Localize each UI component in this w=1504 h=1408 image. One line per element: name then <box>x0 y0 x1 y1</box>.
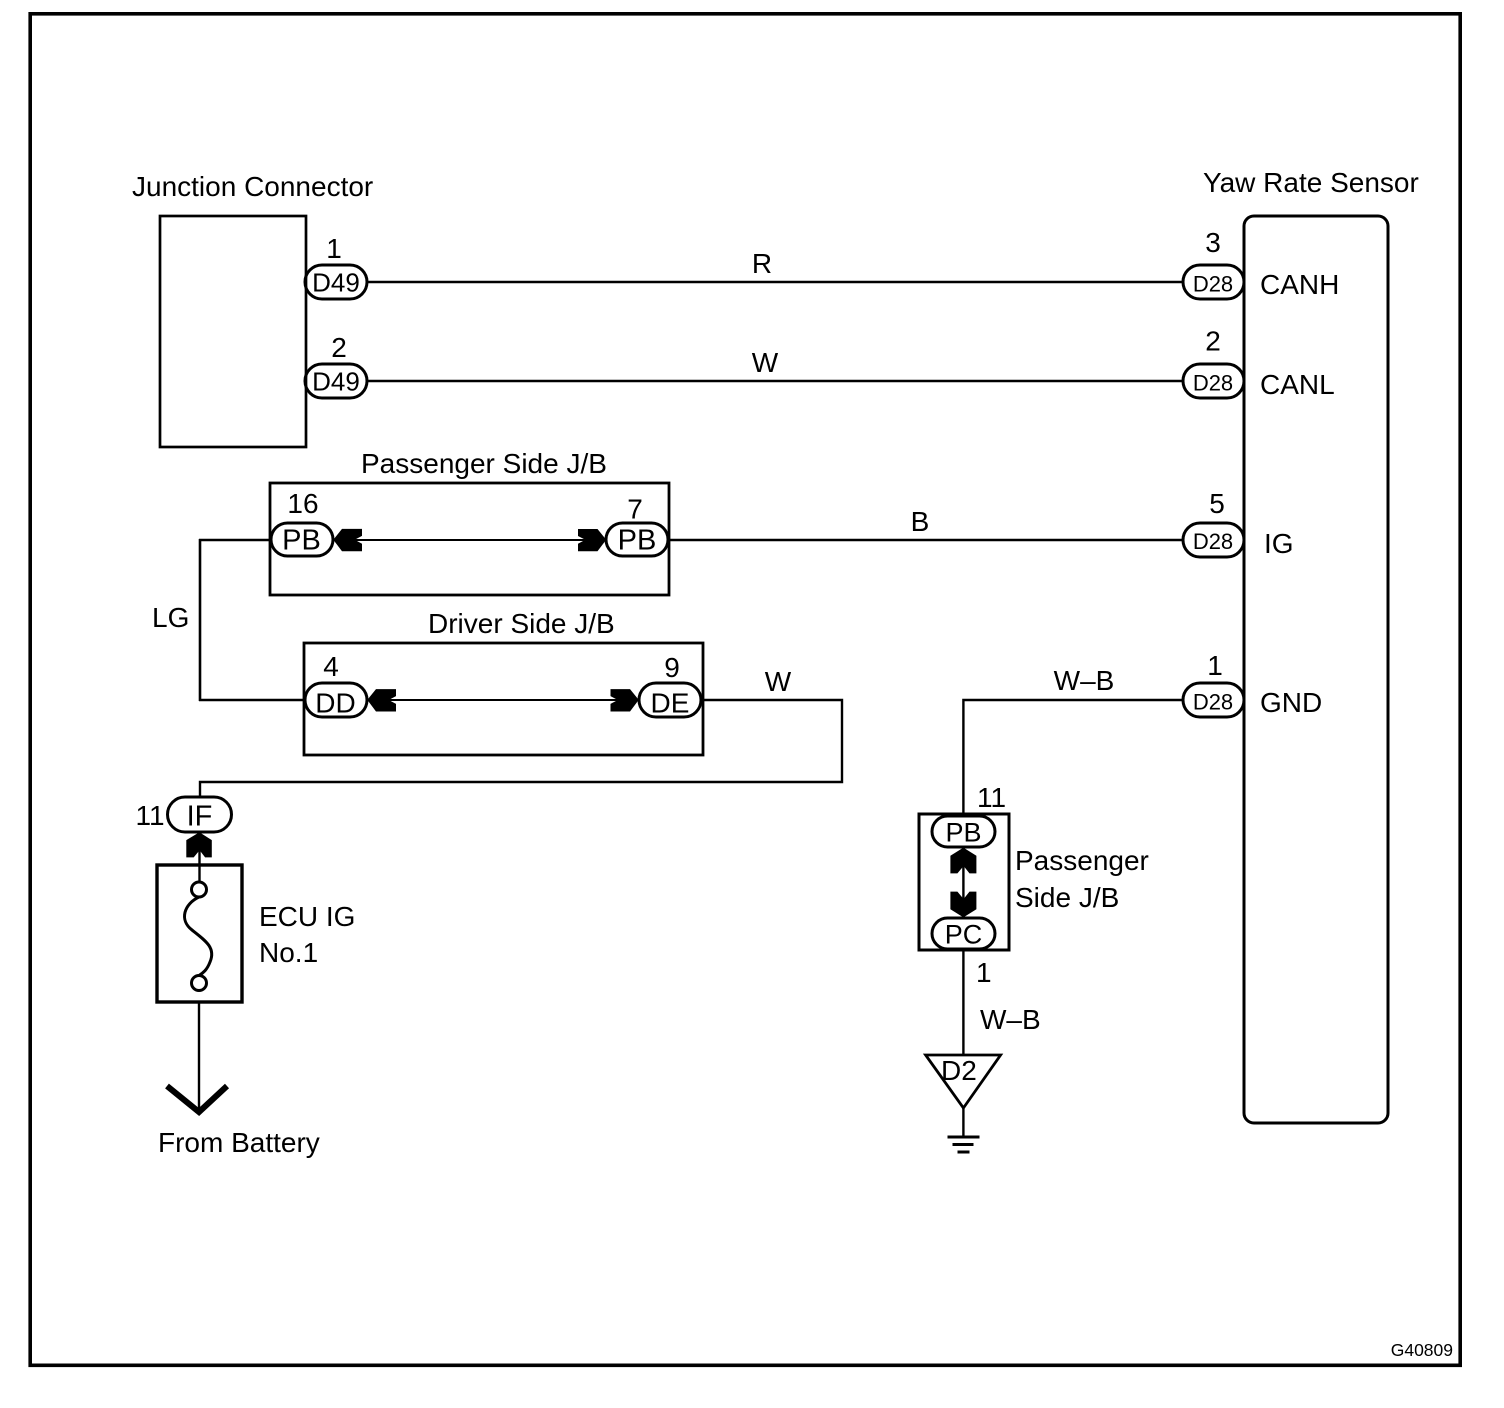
wire IF to fuse <box>198 832 200 882</box>
svg-text:B: B <box>911 506 930 537</box>
svg-text:3: 3 <box>1205 227 1221 258</box>
svg-text:11: 11 <box>135 800 164 831</box>
yaw rate sensor box <box>1244 216 1388 1123</box>
wire stub to PB16 <box>199 539 271 541</box>
fuse top terminal <box>192 882 207 897</box>
svg-text:11: 11 <box>977 782 1006 813</box>
svg-text:CANL: CANL <box>1260 369 1335 400</box>
svg-text:Side J/B: Side J/B <box>1015 882 1119 913</box>
svg-text:From Battery: From Battery <box>158 1127 320 1158</box>
arrow right at PB7 <box>578 529 606 551</box>
ground connector D2 triangle <box>926 1055 1001 1108</box>
svg-text:D49: D49 <box>312 268 360 298</box>
wire between DD and DE <box>368 699 639 701</box>
connector IF pin 11 <box>168 797 232 832</box>
svg-text:DD: DD <box>315 688 355 719</box>
fuse bottom terminal <box>192 976 207 991</box>
svg-text:Passenger Side J/B: Passenger Side J/B <box>361 448 607 479</box>
svg-text:PC: PC <box>945 920 983 950</box>
svg-text:IG: IG <box>1264 528 1294 559</box>
connector PB pin 16 <box>271 523 333 556</box>
svg-text:W–B: W–B <box>980 1004 1041 1035</box>
wire fuse to battery <box>198 1002 200 1112</box>
svg-text:W–B: W–B <box>1054 665 1115 696</box>
svg-text:2: 2 <box>1205 326 1221 357</box>
svg-text:1: 1 <box>326 233 342 264</box>
arrow up at IF <box>186 832 212 857</box>
wire stub to DD <box>199 699 305 701</box>
svg-text:ECU IG: ECU IG <box>259 901 355 932</box>
arrow down in J/B <box>950 892 976 918</box>
connector D49 pin 1 <box>305 265 367 299</box>
wire LG vertical <box>199 539 202 701</box>
svg-text:D2: D2 <box>941 1055 977 1086</box>
svg-text:DE: DE <box>651 688 690 719</box>
connector PB pin 11 <box>932 816 995 847</box>
svg-text:CANH: CANH <box>1260 269 1339 300</box>
driver side J/B box <box>304 643 703 755</box>
arrow right at DE <box>611 689 639 711</box>
connector D49 pin 2 <box>305 364 367 398</box>
wire through J/B <box>962 848 964 917</box>
wire PC to ground <box>962 950 964 1055</box>
arrow left at DD <box>367 689 396 711</box>
svg-text:W: W <box>752 347 779 378</box>
fuse ECU IG No.1 box <box>157 865 242 1002</box>
wire B <box>669 539 1184 542</box>
svg-text:D49: D49 <box>312 367 360 397</box>
svg-text:D28: D28 <box>1193 529 1233 554</box>
ground symbol <box>948 1136 980 1139</box>
svg-text:PB: PB <box>945 818 981 848</box>
svg-text:9: 9 <box>664 652 680 683</box>
connector D28 pin 3 <box>1183 265 1244 299</box>
svg-text:7: 7 <box>627 494 643 525</box>
wire W <box>367 380 1184 383</box>
connector D28 pin 2 <box>1183 364 1244 398</box>
wire triangle to ground <box>962 1108 964 1137</box>
svg-text:16: 16 <box>287 488 318 519</box>
passenger side J/B lower box <box>919 814 1009 950</box>
svg-text:5: 5 <box>1209 488 1225 519</box>
svg-text:Passenger: Passenger <box>1015 845 1149 876</box>
svg-text:Junction Connector: Junction Connector <box>132 171 373 202</box>
passenger side J/B box <box>270 483 669 595</box>
arrow up in J/B <box>950 848 976 874</box>
connector D28 pin 5 <box>1183 523 1244 557</box>
wire W-B to GND <box>963 700 1184 814</box>
wire W from DE <box>200 700 842 798</box>
connector D28 pin 1 <box>1183 683 1244 717</box>
svg-text:GND: GND <box>1260 687 1322 718</box>
svg-text:D28: D28 <box>1193 690 1233 715</box>
svg-text:1: 1 <box>976 957 992 988</box>
connector PC <box>932 918 995 949</box>
connector DE pin 9 <box>639 683 701 717</box>
wire R <box>367 281 1184 284</box>
svg-text:No.1: No.1 <box>259 937 318 968</box>
svg-text:G40809: G40809 <box>1391 1340 1453 1360</box>
connector PB pin 7 <box>606 523 668 556</box>
svg-text:D28: D28 <box>1193 272 1233 297</box>
svg-text:IF: IF <box>187 801 213 833</box>
junction connector box <box>160 216 306 447</box>
fuse element curve <box>185 897 212 976</box>
svg-text:LG: LG <box>152 602 189 633</box>
svg-text:D28: D28 <box>1193 371 1233 396</box>
svg-text:1: 1 <box>1207 650 1223 681</box>
svg-text:PB: PB <box>282 525 321 557</box>
svg-text:4: 4 <box>323 651 339 682</box>
wire between PB16 and PB7 <box>334 539 606 541</box>
connector DD pin 4 <box>305 683 367 717</box>
arrow from battery <box>167 1086 227 1112</box>
svg-text:R: R <box>752 248 772 279</box>
svg-text:2: 2 <box>331 332 347 363</box>
svg-text:Yaw Rate Sensor: Yaw Rate Sensor <box>1203 167 1419 198</box>
arrow left at PB16 <box>333 529 362 551</box>
svg-text:W: W <box>765 666 792 697</box>
svg-text:PB: PB <box>618 525 657 557</box>
svg-text:Driver Side J/B: Driver Side J/B <box>428 608 615 639</box>
